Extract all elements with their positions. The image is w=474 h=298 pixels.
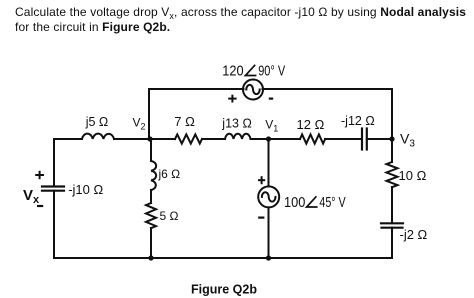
resistor 7ohm [175, 134, 202, 143]
resistor 10ohm [387, 162, 398, 187]
source 120/90 circle [243, 80, 263, 100]
bottom junction dot V1 [266, 255, 271, 260]
inductor j6 [151, 161, 156, 190]
svg-text:j13 Ω: j13 Ω [221, 117, 252, 131]
wire V2 to 7ohm [114, 138, 175, 140]
svg-text:100: 100 [284, 194, 305, 211]
svg-text:7 Ω: 7 Ω [174, 114, 195, 129]
wire right column upper [391, 139, 393, 162]
wire V1 column upper [268, 139, 270, 186]
node V3 dot [389, 136, 394, 141]
capacitor -j2 plates [381, 223, 403, 227]
bottom junction dot mid [148, 255, 153, 260]
svg-text:5 Ω: 5 Ω [160, 209, 179, 223]
capacitor -j10 plates [42, 187, 64, 191]
wire main row left [54, 139, 82, 187]
svg-text:120: 120 [222, 63, 243, 80]
wire j13 to 12ohm [251, 138, 301, 140]
svg-text:j5 Ω: j5 Ω [85, 115, 109, 129]
label plus mid source [258, 176, 265, 184]
source 120/90 sine [246, 85, 259, 94]
label 120/90 V [222, 63, 285, 80]
svg-text:90° V: 90° V [258, 63, 285, 80]
wire mid column lower [150, 228, 152, 258]
svg-text:-j10 Ω: -j10 Ω [68, 182, 103, 197]
label plus left [35, 171, 44, 179]
wire top right segment [263, 89, 393, 139]
svg-text:45° V: 45° V [319, 194, 345, 211]
label plus top source [228, 95, 236, 103]
wire right column lower [391, 228, 393, 258]
wire top left segment [149, 89, 244, 139]
wire cap to V3 [367, 138, 392, 140]
resistor 5ohm [146, 203, 156, 228]
node V1 dot [266, 136, 271, 141]
source 100/45 sine [262, 192, 276, 201]
wire j6 to 5ohm [150, 190, 152, 203]
wire bottom [54, 257, 392, 259]
inductor j5 [82, 134, 114, 139]
wire 10ohm to cap [391, 187, 393, 223]
label minus mid source [258, 217, 264, 219]
wire 12ohm to cap [325, 138, 362, 140]
svg-text:Figure Q2b: Figure Q2b [191, 283, 257, 297]
svg-text:12 Ω: 12 Ω [297, 117, 325, 132]
resistor 12ohm [300, 134, 325, 143]
svg-text:j6 Ω: j6 Ω [158, 167, 181, 181]
svg-text:V1: V1 [265, 118, 278, 134]
svg-text:10 Ω: 10 Ω [399, 168, 427, 183]
svg-text:-j2 Ω: -j2 Ω [400, 227, 428, 242]
label minus left [37, 205, 43, 207]
svg-text:V2: V2 [133, 115, 146, 131]
wire mid column upper [150, 139, 152, 161]
wire 7ohm to j13 [202, 138, 225, 140]
svg-text:Vx: Vx [23, 187, 40, 206]
label 100/45 V [284, 194, 346, 211]
inductor j13 [225, 134, 251, 139]
svg-text:V3: V3 [400, 131, 415, 150]
wire V1 column lower [268, 207, 270, 258]
label minus top source [269, 97, 273, 99]
wire left column lower [53, 191, 55, 258]
node V2 dot [147, 136, 152, 141]
capacitor -j12 plates [362, 129, 367, 150]
source 100/45 circle [258, 186, 279, 207]
svg-text:-j12 Ω: -j12 Ω [341, 114, 375, 128]
